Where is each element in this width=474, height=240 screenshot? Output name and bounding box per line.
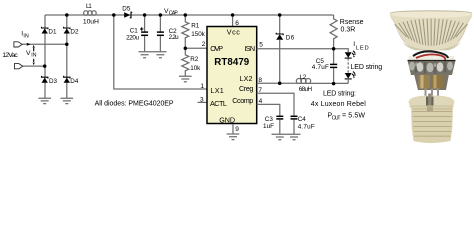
svg-text:5: 5 [259, 42, 263, 49]
wire red [416, 54, 445, 60]
junction R1 rail [184, 13, 188, 17]
wire black [413, 51, 448, 58]
cup side shading [393, 17, 407, 44]
pins to base [426, 89, 439, 101]
ceramic base dome [409, 96, 455, 109]
svg-text:Creg: Creg [239, 84, 253, 93]
junction lower AC node [43, 64, 47, 68]
svg-text:R2: R2 [190, 56, 198, 63]
svg-text:1uF: 1uF [263, 123, 274, 130]
svg-text:LED string: LED string [351, 64, 383, 71]
wire top rail VCAP [45, 14, 334, 16]
svg-text:9: 9 [235, 126, 239, 133]
diode D1 [42, 27, 48, 34]
photo LED bulb [390, 11, 472, 143]
diode D4 [64, 76, 70, 83]
base slot [426, 97, 434, 108]
arrow V_IN lower [33, 59, 35, 66]
inductor L1 [84, 11, 97, 16]
current arrow I_IN [27, 43, 31, 46]
svg-text:D6: D6 [286, 35, 295, 42]
wire LX2 to LED return [298, 82, 349, 84]
svg-text:10k: 10k [190, 65, 201, 72]
terminal AC input lower [15, 64, 23, 69]
driver cap ring band [408, 61, 456, 76]
capacitor C4 [291, 115, 298, 117]
driver top board [409, 56, 455, 61]
svg-text:D4: D4 [70, 78, 79, 85]
svg-text:LED: LED [356, 46, 369, 52]
junction ISN sense node [332, 47, 336, 51]
svg-text:Ccomp: Ccomp [232, 96, 253, 105]
wire OVP pin2 [185, 47, 207, 49]
resistor R2 [182, 48, 189, 76]
wire upper AC input [22, 43, 67, 45]
diode D3 [42, 76, 48, 83]
svg-text:4x Luxeon Rebel: 4x Luxeon Rebel [311, 101, 366, 108]
svg-text:C4: C4 [298, 116, 307, 123]
cup bottom shadow [402, 42, 461, 50]
wire LX1 node column [114, 15, 207, 89]
svg-text:C1: C1 [130, 28, 139, 35]
svg-text:IN: IN [31, 53, 37, 59]
junction C2 rail [159, 13, 163, 17]
svg-text:D3: D3 [49, 78, 58, 85]
svg-text:150k: 150k [191, 31, 205, 38]
svg-text:Rsense: Rsense [340, 19, 364, 26]
svg-text:D5: D5 [122, 5, 131, 12]
svg-text:D1: D1 [48, 28, 57, 35]
terminal AC input upper [14, 42, 22, 47]
ground under IC [227, 134, 240, 140]
svg-text:12Vac: 12Vac [2, 52, 18, 59]
LED2 [345, 72, 356, 79]
svg-text:OUT: OUT [332, 116, 342, 122]
svg-text:All diodes: PMEG4020EP: All diodes: PMEG4020EP [95, 100, 174, 107]
diode D6 [279, 15, 281, 34]
wire LX2 pin8 [257, 82, 298, 84]
resistor R1 [182, 15, 189, 48]
svg-text:LED string:: LED string: [323, 90, 356, 97]
heatsink fins [395, 19, 468, 46]
svg-text:D2: D2 [70, 28, 79, 35]
heatsink rim [390, 11, 472, 18]
capacitor C1 [140, 15, 148, 52]
svg-text:RT8479: RT8479 [214, 57, 250, 68]
junction C1 rail [143, 13, 147, 17]
svg-text:LX2: LX2 [240, 74, 253, 83]
wire bridge right column [66, 15, 68, 98]
diode D2 [64, 27, 70, 34]
resistor Rsense [330, 15, 337, 49]
svg-text:2: 2 [202, 41, 206, 48]
svg-text:IN: IN [23, 34, 29, 40]
junction LX2 D6 node [278, 81, 282, 85]
LED1 [345, 51, 356, 58]
ground shared under C3 C4 [272, 134, 301, 140]
svg-text:4.7uF: 4.7uF [312, 64, 329, 71]
ground under D4 [61, 98, 74, 103]
wire LED string top [334, 49, 349, 53]
svg-text:R1: R1 [191, 23, 199, 30]
svg-text:220u: 220u [126, 35, 139, 42]
wire GND pin9 [232, 124, 234, 134]
diode D5 [124, 12, 132, 18]
junction OVP divider node [184, 47, 188, 51]
svg-text:L1: L1 [86, 3, 92, 10]
wire Creg pin7 [257, 93, 294, 116]
svg-text:1: 1 [200, 83, 204, 90]
inductor L2 [296, 78, 310, 83]
wire Vcc pin6 [232, 15, 234, 27]
svg-text:0.3R: 0.3R [341, 26, 356, 33]
ground under R2 [179, 76, 192, 81]
wire Ccomp pin4 [257, 104, 280, 116]
svg-text:10uH: 10uH [83, 18, 99, 25]
ceramic base body [411, 106, 453, 143]
ground under D3 [38, 98, 51, 103]
svg-text:4.7uF: 4.7uF [298, 124, 315, 131]
svg-text:68uH: 68uH [299, 86, 313, 93]
wire ACTL stub pin3 [198, 101, 207, 103]
svg-text:GND: GND [219, 116, 235, 125]
capacitor C5 [333, 49, 335, 64]
heatsink cup body [390, 11, 472, 51]
junction D2 cathode rail [65, 13, 69, 17]
junction D6 rail [278, 13, 282, 17]
junction C5 return node [332, 82, 336, 86]
junction Vcc rail [231, 13, 235, 17]
wire lower AC input [23, 65, 45, 67]
svg-text:2.2u: 2.2u [169, 34, 179, 41]
wire ISN pin5 [257, 48, 334, 50]
IC U1 RT8479 body [207, 27, 257, 124]
ground shared under C1 C2 [139, 52, 167, 58]
svg-text:L2: L2 [300, 74, 307, 81]
svg-text:C3: C3 [265, 116, 274, 123]
wire dashed LED string [347, 58, 349, 73]
capacitor C3 [276, 115, 283, 117]
capacitor C2 [157, 15, 164, 52]
wire bridge left column [44, 15, 46, 98]
svg-text:LX1: LX1 [210, 86, 223, 95]
transformer brass section [414, 74, 449, 90]
junction LX1 column rail [112, 13, 116, 17]
svg-text:Vcc: Vcc [227, 28, 240, 37]
arrow V_IN upper [33, 45, 35, 51]
svg-text:= 5.5W: = 5.5W [342, 112, 365, 119]
svg-text:CAP: CAP [169, 11, 179, 17]
svg-text:ISN: ISN [244, 44, 255, 53]
svg-text:ACTL: ACTL [210, 99, 227, 108]
junction upper AC node [65, 43, 69, 47]
svg-text:OVP: OVP [210, 44, 223, 53]
